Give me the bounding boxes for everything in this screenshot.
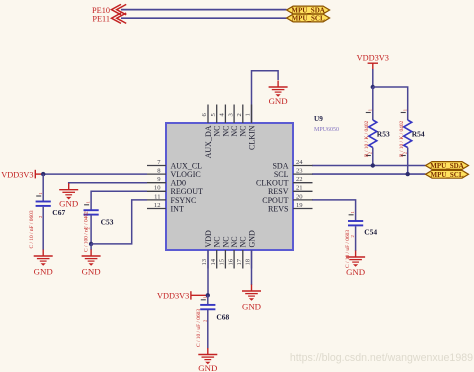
svg-text:VDD3V3: VDD3V3 <box>157 292 189 301</box>
C68 value C / 10 / uF / 0603 <box>196 309 202 347</box>
svg-text:R / 10 / K / 0402: R / 10 / K / 0402 <box>364 120 370 157</box>
node C53/GND/FSYNC junction <box>89 242 93 246</box>
pin 10 REGOUT (left) <box>147 185 203 197</box>
svg-text:MPU_SCL: MPU_SCL <box>430 171 463 179</box>
wire SDA pin24 to MPU_SDA port <box>312 165 426 167</box>
svg-text:19: 19 <box>296 202 303 209</box>
C53 value C / 100 / nF / 0402 <box>83 211 89 252</box>
wire REGOUT pin10 to C53 <box>91 191 147 210</box>
pin 3 NC (top) <box>227 105 239 137</box>
pin 16 NC (bottom) <box>227 236 239 268</box>
U9 part number MPU6050 <box>314 127 339 133</box>
svg-text:C54: C54 <box>364 228 377 237</box>
C67 value C / 10 / nF / 0603 <box>29 210 35 248</box>
svg-text:GND: GND <box>346 267 365 277</box>
power port VDD3V3 (right) <box>357 53 389 70</box>
C68 designator <box>216 313 229 322</box>
ground (C54) <box>346 251 365 278</box>
pin 7 AUX_CL (left) <box>147 159 202 171</box>
svg-text:NC: NC <box>239 126 248 137</box>
pin 17 NC (bottom) <box>236 236 248 268</box>
svg-text:23: 23 <box>296 168 303 175</box>
svg-text:1: 1 <box>245 113 252 116</box>
svg-text:GND: GND <box>198 363 217 372</box>
svg-text:NC: NC <box>221 126 230 137</box>
C67 designator <box>52 208 65 217</box>
svg-text:C / 10 / nF / 0603: C / 10 / nF / 0603 <box>29 210 35 248</box>
svg-text:MPU_SCL: MPU_SCL <box>292 15 325 23</box>
pin 18 GND (bottom) <box>245 230 257 269</box>
svg-text:VDD: VDD <box>204 230 213 248</box>
port MPU_SCL (top) <box>287 14 330 23</box>
C68 pin 1 marker <box>202 296 207 299</box>
port MPU_SDA (top) <box>287 6 330 15</box>
svg-text:MPU_SDA: MPU_SDA <box>291 7 324 15</box>
svg-text:U9: U9 <box>314 115 323 123</box>
svg-text:13: 13 <box>201 258 208 265</box>
C54 value C / 10 / uF / 0603 <box>345 230 351 268</box>
pin 8 VLOGIC (left) <box>147 168 201 180</box>
node VDD3V3/R53/R54 junction <box>371 85 375 89</box>
pin 14 NC (bottom) <box>210 236 222 268</box>
svg-text:VDD3V3: VDD3V3 <box>1 170 33 179</box>
wire PE11 to MPU_SCL port <box>121 17 287 19</box>
svg-text:21: 21 <box>296 185 303 192</box>
capacitor C67 <box>36 174 51 250</box>
wire GND pin18 down <box>251 250 253 285</box>
net label PE11 <box>92 15 110 24</box>
svg-text:GND: GND <box>269 96 288 106</box>
svg-text:NC: NC <box>230 126 239 137</box>
svg-text:INT: INT <box>171 204 184 213</box>
wire junction to R54 top <box>373 87 408 120</box>
R54 pin markers <box>402 108 407 154</box>
wire VDD3V3 down to junction <box>372 69 374 87</box>
svg-text:C67: C67 <box>52 208 65 217</box>
ground (C53) <box>82 250 101 277</box>
capacitor C53 <box>84 205 99 244</box>
ground (pin18) <box>242 285 261 312</box>
svg-text:14: 14 <box>210 258 217 265</box>
svg-text:R / 10 / K / 0402: R / 10 / K / 0402 <box>399 120 405 157</box>
svg-text:C53: C53 <box>101 218 114 227</box>
svg-text:MPU6050: MPU6050 <box>314 127 339 133</box>
R54 designator <box>412 130 425 139</box>
svg-text:15: 15 <box>219 258 226 265</box>
svg-text:GND: GND <box>242 302 261 312</box>
svg-text:AUX_DA: AUX_DA <box>204 125 213 158</box>
C67 pin 1 marker <box>38 192 43 195</box>
svg-text:GND: GND <box>59 199 78 209</box>
ground (C67) <box>34 250 53 277</box>
R53 pin markers <box>368 108 373 154</box>
node R54/SCL junction <box>406 172 410 176</box>
svg-text:GND: GND <box>82 267 101 277</box>
svg-text:REVS: REVS <box>268 204 288 213</box>
svg-text:PE11: PE11 <box>92 15 110 24</box>
svg-text:GND: GND <box>34 267 53 277</box>
svg-text:18: 18 <box>245 258 252 265</box>
R53 value R / 10 / K / 0402 <box>364 120 370 157</box>
pin 23 SCL (right) <box>274 168 313 180</box>
power port VDD3V3 (bottom) <box>157 291 208 300</box>
svg-text:NC: NC <box>213 236 222 247</box>
node R53/SDA junction <box>371 163 375 167</box>
C54 pin 1 marker <box>350 211 355 214</box>
pin 12 INT (left) <box>147 202 184 214</box>
pin 5 NC (top) <box>210 105 222 137</box>
C54 designator <box>364 228 377 237</box>
svg-text:C / 10 / uF / 0603: C / 10 / uF / 0603 <box>345 230 351 268</box>
svg-text:R53: R53 <box>377 130 390 139</box>
port MPU_SCL (right) <box>426 170 469 179</box>
wire VDD pin13 down <box>207 250 209 295</box>
wire junction down to ground <box>90 244 92 250</box>
ground (CLKIN) <box>269 81 288 107</box>
svg-text:22: 22 <box>296 176 303 183</box>
U9 designator <box>314 115 323 123</box>
port MPU_SDA (right) <box>426 162 469 171</box>
pin 2 NC (top) <box>236 105 248 137</box>
C54 pin 2 marker <box>350 235 355 238</box>
R54 value R / 10 / K / 0402 <box>399 120 405 157</box>
pin 20 CPOUT (right) <box>262 193 312 205</box>
pin 13 VDD (bottom) <box>201 230 213 269</box>
capacitor C68 <box>200 295 215 348</box>
pin 11 FSYNC (left) <box>147 193 196 205</box>
C53 designator <box>101 218 114 227</box>
chevron arrows PE11 <box>112 13 127 23</box>
svg-text:C / 100 / nF / 0402: C / 100 / nF / 0402 <box>83 211 89 252</box>
capacitor C54 <box>348 215 363 251</box>
pin 9 AD0 (left) <box>147 176 186 188</box>
pin 21 RESV (right) <box>268 185 312 197</box>
svg-text:16: 16 <box>227 258 234 265</box>
ground (AD0) <box>59 183 78 209</box>
node VDD3V3/C68 junction <box>206 293 210 297</box>
svg-text:10: 10 <box>154 185 161 192</box>
wire VDD3V3 to VLOGIC pin8 <box>43 173 147 175</box>
svg-text:NC: NC <box>213 126 222 137</box>
svg-text:C68: C68 <box>216 313 229 322</box>
svg-text:https://blog.csdn.net/wangwenx: https://blog.csdn.net/wangwenxue1989 <box>290 352 473 364</box>
svg-text:11: 11 <box>154 193 160 200</box>
wire AD0 pin9 to GND <box>69 183 147 184</box>
C53 pin 1 marker <box>86 200 91 203</box>
pin 19 REVS (right) <box>268 202 312 214</box>
svg-text:20: 20 <box>296 193 303 200</box>
pin 1 CLKIN (top) <box>245 105 257 150</box>
wire SCL pin23 to MPU_SCL port <box>312 173 426 175</box>
pin 15 NC (bottom) <box>219 236 231 268</box>
svg-text:2: 2 <box>236 113 243 116</box>
svg-text:MPU_SDA: MPU_SDA <box>430 162 463 170</box>
ground (C68) <box>198 348 217 372</box>
svg-text:NC: NC <box>239 236 248 247</box>
wire junction to FSYNC pin11 <box>91 200 147 244</box>
C67 pin 2 marker <box>38 215 43 218</box>
svg-text:CLKIN: CLKIN <box>247 125 256 150</box>
resistor R53 <box>366 87 377 166</box>
pin 6 AUX_DA (top) <box>201 105 213 159</box>
svg-text:R54: R54 <box>412 130 425 139</box>
chevron arrows PE10 <box>112 4 127 14</box>
svg-text:NC: NC <box>221 236 230 247</box>
svg-text:17: 17 <box>236 258 243 265</box>
R53 designator <box>377 130 390 139</box>
power port VDD3V3 (left) <box>1 170 43 180</box>
svg-text:C / 10 / uF / 0603: C / 10 / uF / 0603 <box>196 309 202 347</box>
C53 pin 2 marker <box>86 227 91 230</box>
wire PE10 to MPU_SDA port <box>121 9 287 11</box>
net label PE10 <box>92 6 110 15</box>
resistor R54 <box>401 113 412 175</box>
wire CPOUT pin20 to C54 <box>312 200 356 221</box>
pin 22 CLKOUT (right) <box>256 176 312 188</box>
wire CLKIN pin1 to GND <box>252 71 279 123</box>
svg-text:VDD3V3: VDD3V3 <box>357 53 389 62</box>
pin 24 SDA (right) <box>272 159 312 171</box>
C68 pin 2 marker <box>202 319 207 322</box>
svg-text:12: 12 <box>154 202 161 209</box>
svg-text:NC: NC <box>230 236 239 247</box>
pin 4 NC (top) <box>219 105 231 137</box>
svg-text:24: 24 <box>296 159 303 166</box>
node VDD3V3/C67 junction <box>41 172 45 176</box>
svg-text:GND: GND <box>247 230 256 248</box>
op-amp/IC U9 MPU6050 body <box>166 123 293 250</box>
